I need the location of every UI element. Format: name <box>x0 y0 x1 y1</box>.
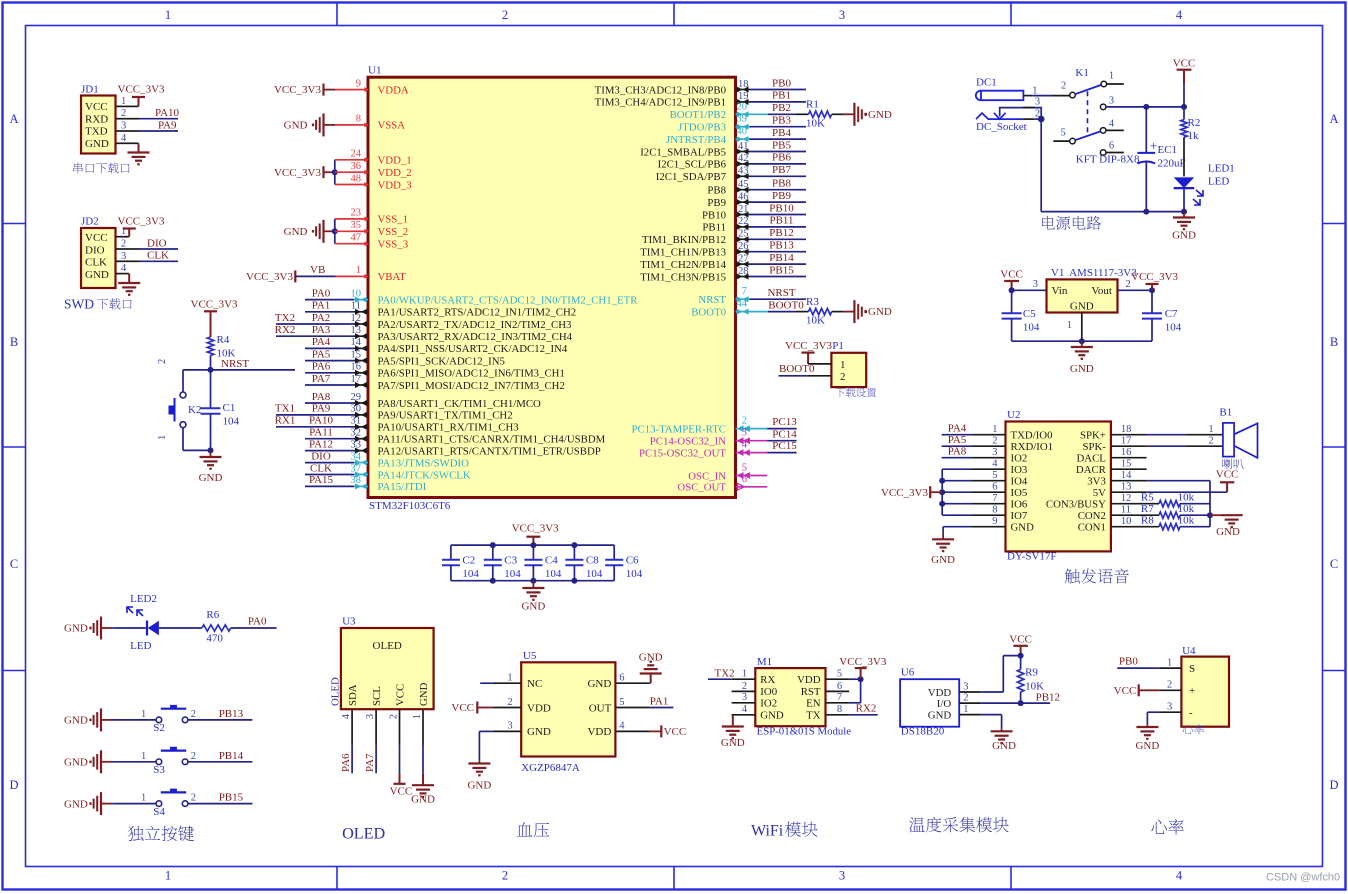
svg-text:NRST: NRST <box>698 294 726 306</box>
caption 心率 <box>1151 819 1183 835</box>
svg-text:PB0: PB0 <box>1119 656 1138 668</box>
DC1 pin1 wire to K1 <box>1023 85 1069 96</box>
svg-text:4: 4 <box>619 721 625 732</box>
svg-text:SPK-: SPK- <box>1082 441 1106 453</box>
svg-text:VDD_3: VDD_3 <box>378 179 412 191</box>
pressure sensor U5 body <box>493 650 650 757</box>
svg-text:BOOT0: BOOT0 <box>768 299 804 311</box>
svg-text:GND: GND <box>760 710 784 722</box>
ground (JD1 pin4) <box>128 143 150 164</box>
U3 pin 2 stub <box>389 709 400 745</box>
svg-text:1: 1 <box>412 714 423 719</box>
svg-text:P1: P1 <box>832 340 844 352</box>
power port VCC_3V3 (VBAT) and net VB <box>246 270 354 283</box>
svg-text:VCC_3V3: VCC_3V3 <box>1131 271 1179 283</box>
svg-text:PC14: PC14 <box>772 428 797 440</box>
svg-text:GND: GND <box>418 682 430 706</box>
wire U6 VDD to VCC <box>981 653 1024 692</box>
svg-text:6: 6 <box>992 482 997 493</box>
wire/net PC13 <box>750 416 798 428</box>
svg-text:PA11: PA11 <box>309 427 333 439</box>
part number XGZP6847A <box>521 762 580 774</box>
MCU pin 46 (PB9) <box>707 191 749 209</box>
svg-text:2: 2 <box>507 697 512 708</box>
wire/net PB14 <box>750 252 807 264</box>
svg-text:PB9: PB9 <box>707 197 726 209</box>
svg-text:U5: U5 <box>523 650 537 662</box>
svg-text:CLK: CLK <box>85 257 107 269</box>
wire/net PA8 <box>305 391 354 403</box>
wire/net PB10 <box>750 202 807 214</box>
svg-text:4: 4 <box>992 459 998 470</box>
svg-text:2: 2 <box>742 416 747 427</box>
svg-text:7: 7 <box>742 286 747 297</box>
decoupling top rail <box>451 542 614 548</box>
svg-text:JNTRST/PB4: JNTRST/PB4 <box>666 134 727 146</box>
svg-text:I2C1_SMBAL/PB5: I2C1_SMBAL/PB5 <box>640 146 726 158</box>
wire/net PA8 (U2 pin3) <box>942 446 972 458</box>
svg-text:GND: GND <box>931 554 955 566</box>
caption 电源电路 <box>1042 216 1101 230</box>
pushbutton S2 <box>141 705 196 734</box>
MCU pin 15 (PA5) <box>351 349 505 367</box>
svg-text:Vin: Vin <box>1052 285 1068 297</box>
LED LED1 <box>1174 163 1235 212</box>
wire/net PB12 <box>750 227 807 239</box>
svg-text:GND: GND <box>64 715 88 727</box>
MCU pin 9 (VDDA) <box>354 78 409 96</box>
wire K1 pin3 to VCC node <box>1106 104 1187 110</box>
svg-text:VSS_1: VSS_1 <box>378 214 409 226</box>
svg-text:A: A <box>9 112 18 126</box>
power port VCC_3V3 (M1 pin5) <box>839 656 887 682</box>
svg-text:29: 29 <box>351 392 362 403</box>
DC1 sleeve wire to bottom rail <box>1040 119 1042 212</box>
svg-text:1: 1 <box>1109 71 1114 82</box>
svg-text:15: 15 <box>351 349 362 360</box>
svg-text:10K: 10K <box>806 117 825 129</box>
wire VCC to Vin <box>1009 279 1047 293</box>
svg-text:7: 7 <box>837 692 842 703</box>
svg-text:3: 3 <box>121 251 126 262</box>
svg-text:VCC: VCC <box>1216 469 1239 481</box>
svg-text:PA7: PA7 <box>364 753 376 772</box>
MCU pin 24 (VDD_1) <box>351 149 412 167</box>
svg-text:1: 1 <box>1208 424 1213 435</box>
svg-text:2: 2 <box>191 793 196 804</box>
svg-text:VSSA: VSSA <box>378 120 406 132</box>
svg-text:GND: GND <box>639 651 663 663</box>
svg-text:C1: C1 <box>223 402 236 414</box>
svg-text:2: 2 <box>840 371 846 383</box>
svg-text:A: A <box>1329 112 1338 126</box>
svg-text:18: 18 <box>1121 424 1132 435</box>
wire/net PA6 <box>305 361 354 373</box>
svg-text:2: 2 <box>157 359 168 364</box>
wire/net PA3 <box>275 324 354 336</box>
power port VCC_3V3 (VDD_1..3) <box>274 160 354 185</box>
ground (JD2 pin4) <box>118 274 140 295</box>
svg-text:13: 13 <box>351 325 362 336</box>
wire U2 GND pin9 <box>943 527 972 534</box>
svg-text:PB5: PB5 <box>772 139 791 151</box>
svg-text:DACL: DACL <box>1076 453 1105 465</box>
svg-text:RX2: RX2 <box>856 702 877 714</box>
svg-text:C4: C4 <box>545 555 558 567</box>
svg-text:35: 35 <box>351 220 362 231</box>
MCU pin 11 (PA1) <box>351 301 576 319</box>
svg-text:10: 10 <box>1121 516 1132 527</box>
svg-text:30: 30 <box>351 404 362 415</box>
MCU pin 7 (NRST) <box>698 286 749 306</box>
wire/net PC14 <box>750 428 798 440</box>
svg-text:3: 3 <box>742 692 747 703</box>
power port VCC_3V3 (JD1 pin1) <box>118 84 166 107</box>
svg-text:VCC: VCC <box>1173 57 1196 69</box>
svg-text:GND: GND <box>467 780 491 792</box>
svg-text:I2C1_SDA/PB7: I2C1_SDA/PB7 <box>656 171 727 183</box>
svg-text:2: 2 <box>742 681 747 692</box>
svg-text:PA10: PA10 <box>155 107 180 119</box>
svg-text:11: 11 <box>1121 505 1131 516</box>
wire/net PC15 <box>750 440 798 452</box>
svg-text:PB15: PB15 <box>769 264 794 276</box>
svg-text:104: 104 <box>504 568 521 580</box>
svg-text:1: 1 <box>121 96 126 107</box>
svg-text:PA3/USART2_RX/ADC12_IN3/TIM2_C: PA3/USART2_RX/ADC12_IN3/TIM2_CH4 <box>378 331 573 343</box>
svg-text:B1: B1 <box>1219 407 1232 419</box>
svg-text:VCC: VCC <box>1114 685 1137 697</box>
svg-text:D: D <box>1329 778 1338 792</box>
part number DS18B20 <box>901 726 945 738</box>
svg-text:RX: RX <box>760 674 775 686</box>
power port GND (LED2) <box>64 617 146 640</box>
svg-text:EC1: EC1 <box>1158 144 1178 156</box>
DC1 pin3 contact loop <box>1000 97 1041 120</box>
decoupling bottom rail <box>451 578 614 584</box>
ground (U2) <box>931 534 955 566</box>
svg-text:17: 17 <box>1121 436 1132 447</box>
svg-text:1: 1 <box>840 359 846 371</box>
svg-text:B: B <box>1330 335 1338 349</box>
MCU pin 20 (BOOT1/PB2) <box>670 101 750 121</box>
svg-text:1: 1 <box>141 751 146 762</box>
svg-text:VDD_2: VDD_2 <box>378 167 412 179</box>
svg-text:GND: GND <box>587 678 611 690</box>
svg-text:R8: R8 <box>1141 514 1154 526</box>
power port VCC (U4 pin2) <box>1114 684 1160 697</box>
MCU pin 44 (BOOT0) <box>691 299 749 319</box>
caption DC_Socket <box>976 121 1027 133</box>
svg-text:PA3: PA3 <box>312 324 331 336</box>
svg-text:104: 104 <box>545 568 562 580</box>
svg-text:PB14: PB14 <box>769 252 794 264</box>
MCU pin 31 (PA10) <box>351 416 519 434</box>
svg-text:5: 5 <box>1061 128 1066 139</box>
svg-text:7: 7 <box>992 493 997 504</box>
svg-text:DIO: DIO <box>311 450 331 462</box>
MCU pin 10 (PA0) <box>351 288 639 306</box>
svg-text:+: + <box>1150 138 1157 153</box>
wire U5 pin1 NC <box>480 682 493 684</box>
svg-text:GND: GND <box>928 709 952 721</box>
svg-text:4: 4 <box>742 440 748 451</box>
svg-text:1: 1 <box>141 793 146 804</box>
net label CLK <box>147 250 169 262</box>
svg-text:48: 48 <box>351 173 362 184</box>
svg-text:5: 5 <box>992 470 997 481</box>
svg-text:10: 10 <box>351 288 362 299</box>
svg-text:46: 46 <box>738 191 749 202</box>
svg-text:37: 37 <box>351 463 362 474</box>
svg-text:C5: C5 <box>1023 308 1036 320</box>
svg-text:12: 12 <box>1121 493 1132 504</box>
svg-text:3: 3 <box>1033 279 1038 290</box>
wire/net PA5 (U2 pin2) <box>942 434 972 446</box>
svg-text:10K: 10K <box>806 315 825 327</box>
svg-text:33: 33 <box>351 439 362 450</box>
wire/net PB0 (U4 pin1) <box>1117 656 1160 668</box>
svg-text:OSC_IN: OSC_IN <box>688 470 726 482</box>
svg-text:CON3/BUSY: CON3/BUSY <box>1046 499 1106 511</box>
power port VCC_3V3 (decoupling) <box>512 523 560 545</box>
svg-text:PA5: PA5 <box>312 348 331 360</box>
MCU pin 32 (PA11) <box>351 428 606 446</box>
wire/net PB8 <box>750 178 807 190</box>
svg-text:SDA: SDA <box>347 684 359 706</box>
U3 pin 1 stub <box>412 709 423 745</box>
svg-text:OSC_OUT: OSC_OUT <box>677 482 726 494</box>
power port VCC_3V3 (VDDA) <box>274 84 354 97</box>
svg-text:S2: S2 <box>153 722 165 734</box>
MCU pin 27 (TIM1_CH2N/PB14) <box>640 253 749 271</box>
svg-text:R2: R2 <box>1188 117 1201 129</box>
designator LED2 <box>127 593 157 616</box>
MCU pin 1 (VBAT) <box>354 265 406 283</box>
svg-text:JTDO/PB3: JTDO/PB3 <box>678 122 726 134</box>
wire/net PB3 <box>750 115 807 127</box>
power port VCC (U3) <box>390 745 413 797</box>
MCU pin 13 (PA3) <box>351 325 573 343</box>
ground (U5 pin6) <box>639 651 663 683</box>
svg-text:TIM3_CH3/ADC12_IN8/PB0: TIM3_CH3/ADC12_IN8/PB0 <box>595 84 726 96</box>
svg-text:6: 6 <box>619 673 624 684</box>
wire node to C1 and GND <box>208 370 214 457</box>
svg-text:38: 38 <box>351 475 362 486</box>
svg-text:PC13: PC13 <box>772 416 797 428</box>
resistor R2 <box>1181 107 1201 142</box>
svg-text:PC15-OSC32_OUT: PC15-OSC32_OUT <box>639 447 726 459</box>
svg-text:1: 1 <box>963 704 968 715</box>
svg-text:6: 6 <box>837 681 842 692</box>
svg-text:9: 9 <box>992 516 997 527</box>
svg-text:23: 23 <box>351 208 362 219</box>
wire M1 pin7 EN to VCC_3V3 <box>849 679 861 703</box>
svg-text:DC_Socket: DC_Socket <box>976 121 1027 133</box>
svg-text:22: 22 <box>738 216 749 227</box>
svg-text:6: 6 <box>1109 141 1114 152</box>
svg-text:PA9: PA9 <box>158 119 177 131</box>
wire/net PB7 <box>750 164 807 176</box>
svg-text:104: 104 <box>462 568 479 580</box>
resistor R9 <box>1017 656 1044 693</box>
svg-text:PA0: PA0 <box>248 615 267 627</box>
svg-text:VCC_3V3: VCC_3V3 <box>191 299 239 311</box>
svg-text:EN: EN <box>806 698 821 710</box>
svg-text:2: 2 <box>1061 80 1066 91</box>
svg-text:2: 2 <box>191 751 196 762</box>
svg-text:VCC_3V3: VCC_3V3 <box>274 84 322 96</box>
svg-text:PA2/USART2_TX/ADC12_IN2/TIM2_C: PA2/USART2_TX/ADC12_IN2/TIM2_CH3 <box>378 319 572 331</box>
svg-text:4: 4 <box>1176 869 1183 883</box>
ground (power circuit) <box>1172 212 1196 242</box>
MCU pin 6 (OSC_OUT) <box>677 474 749 494</box>
svg-text:44: 44 <box>737 299 748 310</box>
svg-text:PA12: PA12 <box>309 438 333 450</box>
svg-text:DIO: DIO <box>85 244 105 256</box>
svg-text:PB7: PB7 <box>772 164 791 176</box>
svg-text:GND: GND <box>64 757 88 769</box>
svg-text:DIO: DIO <box>147 237 167 249</box>
svg-text:M1: M1 <box>757 656 772 668</box>
svg-text:TIM1_CH1N/PB13: TIM1_CH1N/PB13 <box>640 247 726 259</box>
wire/net PB12 (U6 I/O) <box>981 691 1060 706</box>
wire/net PA1 (U5 pin5) <box>650 695 674 707</box>
caption 触发语音 <box>1065 568 1129 583</box>
wire/net BOOT0 (P1 pin2) <box>779 363 832 376</box>
svg-text:BOOT0: BOOT0 <box>691 306 726 318</box>
ground (U2 pullups) <box>1210 515 1243 538</box>
capacitor C4 <box>524 545 562 581</box>
resistor R8 <box>1141 514 1210 530</box>
svg-text:GND: GND <box>521 601 545 613</box>
MCU pin 26 (TIM1_CH1N/PB13) <box>640 241 749 259</box>
MCU pin 42 (I2C1_SCL/PB6) <box>658 153 750 171</box>
svg-text:S: S <box>1189 663 1195 675</box>
svg-text:VCC_3V3: VCC_3V3 <box>512 523 560 535</box>
label 心率 (U4) <box>1183 724 1205 734</box>
svg-text:B: B <box>10 335 18 349</box>
wire/net PA6 (U3 SDA) <box>340 745 352 773</box>
svg-text:2: 2 <box>963 693 968 704</box>
svg-text:GND: GND <box>868 109 892 121</box>
DC socket DC1 <box>976 77 1024 101</box>
net label PA9 <box>158 119 177 131</box>
power port VCC (U5 pin2) <box>451 702 492 715</box>
wire SPK+ to B1 <box>1147 424 1223 435</box>
svg-text:1: 1 <box>141 709 146 720</box>
svg-text:C6: C6 <box>626 555 639 567</box>
wifi module M1 body <box>732 656 850 726</box>
wire LED2 to R6 <box>159 627 202 629</box>
svg-text:NC: NC <box>527 678 542 690</box>
pushbutton S4 <box>141 789 196 818</box>
svg-text:VB: VB <box>310 264 325 276</box>
svg-text:PA5/SPI1_SCK/ADC12_IN5: PA5/SPI1_SCK/ADC12_IN5 <box>378 355 505 367</box>
svg-text:K1: K1 <box>1075 67 1088 79</box>
caption 串口下载口 <box>73 163 129 174</box>
svg-text:Vout: Vout <box>1091 285 1112 297</box>
svg-text:10k: 10k <box>1178 503 1195 515</box>
svg-text:GND: GND <box>64 623 88 635</box>
svg-text:PB14: PB14 <box>219 750 244 762</box>
svg-text:CON2: CON2 <box>1078 510 1106 522</box>
svg-text:16: 16 <box>351 362 362 373</box>
svg-text:VCC_3V3: VCC_3V3 <box>246 271 294 283</box>
svg-text:2: 2 <box>121 239 126 250</box>
svg-text:1: 1 <box>1067 320 1072 331</box>
connector JD2 <box>81 216 129 288</box>
svg-text:PA4/SPI1_NSS/USART2_CK/ADC12_I: PA4/SPI1_NSS/USART2_CK/ADC12_IN4 <box>378 343 568 355</box>
svg-text:TX1: TX1 <box>275 403 295 415</box>
svg-text:1: 1 <box>507 673 512 684</box>
MCU pin 39 (JTDO/PB3) <box>678 114 750 134</box>
ground (reset) <box>199 457 223 484</box>
svg-text:PA11/USART1_CTS/CANRX/TIM1_CH4: PA11/USART1_CTS/CANRX/TIM1_CH4/USBDM <box>378 434 606 446</box>
wire/net PB15 <box>750 264 807 276</box>
svg-text:DACR: DACR <box>1076 464 1107 476</box>
svg-text:47: 47 <box>351 233 362 244</box>
svg-text:PA0/WKUP/USART2_CTS/ADC12_IN0/: PA0/WKUP/USART2_CTS/ADC12_IN0/TIM2_CH1_E… <box>378 294 639 306</box>
power port GND (S2) <box>64 708 156 731</box>
svg-text:3: 3 <box>1035 97 1040 108</box>
svg-text:PA5: PA5 <box>948 434 967 446</box>
svg-text:3: 3 <box>121 121 126 132</box>
resistor R7 <box>1141 503 1213 519</box>
wire/net PB13 <box>750 240 807 252</box>
net label OLED (rotated) <box>330 677 342 706</box>
wire/net PA1 <box>305 300 354 312</box>
wire/net PA10 <box>275 415 354 427</box>
svg-text:1: 1 <box>1032 85 1037 96</box>
svg-text:IO6: IO6 <box>1011 499 1028 511</box>
svg-text:PB13: PB13 <box>219 708 244 720</box>
svg-text:U4: U4 <box>1182 645 1196 657</box>
part number DY-SV17F <box>1007 551 1057 563</box>
svg-text:BOOT1/PB2: BOOT1/PB2 <box>670 109 726 121</box>
svg-text:SCL: SCL <box>371 686 383 706</box>
svg-text:TIM1_CH2N/PB14: TIM1_CH2N/PB14 <box>640 259 726 271</box>
svg-text:VCC: VCC <box>1000 268 1023 280</box>
resistor R1 <box>806 99 832 130</box>
wire SPK- to B1 <box>1147 436 1223 447</box>
svg-text:VSS_3: VSS_3 <box>378 239 409 251</box>
svg-text:VCC_3V3: VCC_3V3 <box>118 84 166 96</box>
svg-text:4: 4 <box>341 713 352 719</box>
svg-text:39: 39 <box>737 114 748 125</box>
svg-text:PA1: PA1 <box>312 300 331 312</box>
wire/net PA12 <box>305 438 354 450</box>
svg-text:GND: GND <box>992 740 1016 752</box>
wire/net PB2 with pull-down <box>750 102 809 114</box>
svg-text:VDD_1: VDD_1 <box>378 155 412 167</box>
svg-text:PB10: PB10 <box>702 209 726 221</box>
caption 血压 <box>517 822 549 837</box>
wire CLK (JD2 pin3) <box>129 260 178 262</box>
capacitor C7 <box>1142 290 1182 341</box>
svg-text:3: 3 <box>963 681 968 692</box>
svg-text:GND: GND <box>411 794 435 806</box>
svg-text:WiFi: WiFi <box>751 823 784 840</box>
svg-text:5: 5 <box>837 669 842 680</box>
header P1 <box>831 340 866 387</box>
wire to K2 <box>183 370 211 392</box>
svg-text:24: 24 <box>351 149 362 160</box>
svg-text:41: 41 <box>738 141 749 152</box>
svg-text:VCC_3V3: VCC_3V3 <box>274 167 322 179</box>
svg-text:NRST: NRST <box>767 287 795 299</box>
ground (M1 pin4) <box>721 715 745 749</box>
